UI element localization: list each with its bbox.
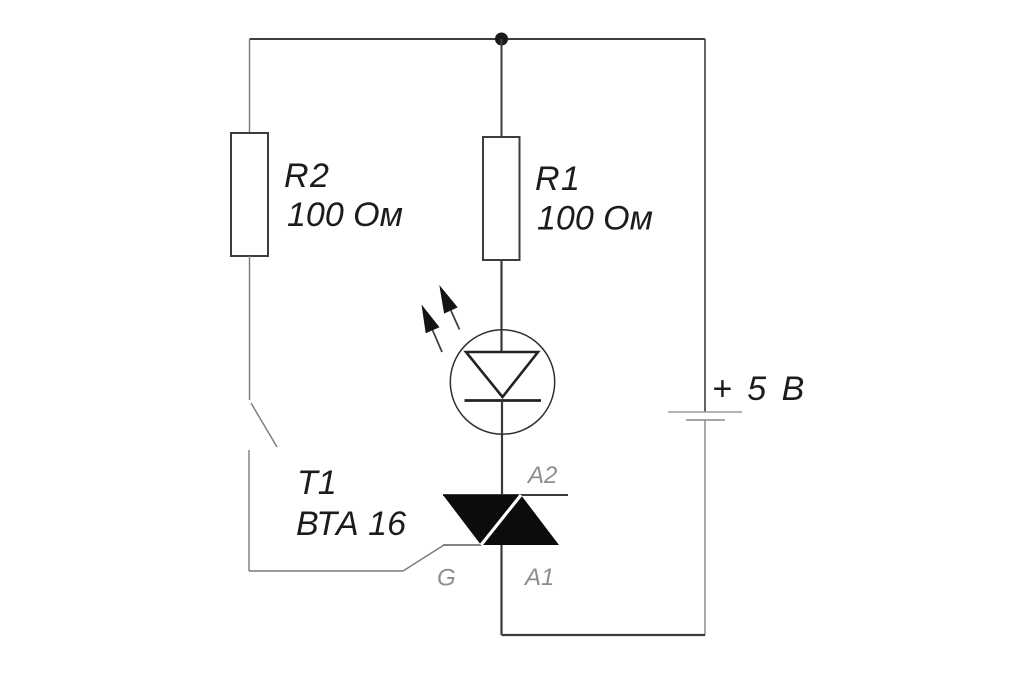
- svg-text:A2: A2: [526, 462, 557, 489]
- svg-text:A1: A1: [523, 564, 554, 591]
- svg-text:R2: R2: [284, 157, 330, 195]
- svg-text:100 Ом: 100 Ом: [537, 200, 653, 238]
- svg-text:R1: R1: [535, 160, 581, 198]
- svg-text:T1: T1: [297, 464, 337, 502]
- svg-text:100 Ом: 100 Ом: [287, 196, 403, 234]
- svg-text:+ 5 В: + 5 В: [712, 370, 807, 408]
- svg-text:G: G: [437, 565, 456, 592]
- svg-text:ВТА 16: ВТА 16: [296, 505, 406, 543]
